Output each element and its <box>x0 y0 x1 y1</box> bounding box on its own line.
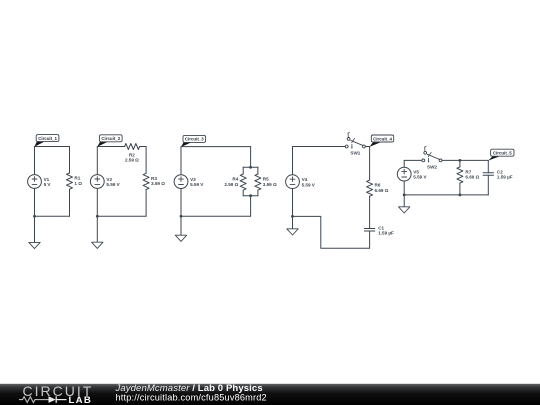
wire top circuit 1 <box>35 146 70 148</box>
svg-text:Circuit_4: Circuit_4 <box>373 136 392 141</box>
wire split bar circuit 3 <box>243 166 258 168</box>
svg-text:Circuit_3: Circuit_3 <box>185 137 204 142</box>
svg-text:1 Ω: 1 Ω <box>74 181 82 186</box>
wire R6 to C1 <box>369 196 371 228</box>
svg-text:LAB: LAB <box>69 395 93 405</box>
svg-text:Circuit_2: Circuit_2 <box>101 136 120 141</box>
svg-text:2.59 Ω: 2.59 Ω <box>224 182 238 187</box>
svg-text:http://circuitlab.com/cfu85uv8: http://circuitlab.com/cfu85uv86mrd2 <box>116 393 267 403</box>
wire R5 bottom stub <box>257 190 259 196</box>
wire R7 bottom stub <box>459 183 461 195</box>
svg-text:6.69 Ω: 6.69 Ω <box>375 188 389 193</box>
resistor R7 <box>457 167 480 183</box>
wire right lower circuit 3 <box>250 196 252 217</box>
junction dot circuit 5 left <box>403 194 406 197</box>
wire top-right circuit 5 <box>460 159 488 161</box>
wire top-left circuit 2 <box>97 146 124 148</box>
junction dot R7 top <box>459 159 462 162</box>
wire left circuit 5 <box>403 160 405 167</box>
ground circuit 1 <box>29 216 40 248</box>
footer background bar <box>0 384 540 405</box>
wire R4 top stub <box>242 167 244 174</box>
wire top-right circuit 2 <box>140 146 147 148</box>
wire left circuit 1 <box>34 147 36 175</box>
wire C1 bottom <box>369 231 371 248</box>
node label flag Circuit_1 <box>34 135 59 147</box>
svg-text:6.69 Ω: 6.69 Ω <box>465 175 479 180</box>
resistor R5 <box>255 174 277 190</box>
svg-text:3.59 Ω: 3.59 Ω <box>263 182 277 187</box>
wire top circuit 4 <box>293 146 346 148</box>
wire bottom run circuit 4 <box>293 216 370 248</box>
junction dot circuit 4 <box>291 215 294 218</box>
wire left circuit 4 <box>292 147 294 175</box>
junction dot circuit 3 <box>180 215 183 218</box>
voltage source V4 <box>286 175 316 189</box>
wire right drop circuit 3 <box>250 147 252 168</box>
wire bottom circuit 3 <box>181 215 251 217</box>
wire bottom circuit 5 <box>404 194 488 196</box>
resistor R6 <box>367 180 389 196</box>
wire switch to corner circuit 4 <box>365 146 369 148</box>
svg-text:Circuit_5: Circuit_5 <box>493 151 512 156</box>
wire bottom circuit 1 <box>35 215 70 217</box>
wire left circuit 3 <box>180 147 182 175</box>
junction dot split circuit 3 <box>249 166 252 169</box>
junction dot R7 bottom <box>459 194 462 197</box>
node label flag Circuit_5 <box>488 149 514 160</box>
svg-text:5.59 V: 5.59 V <box>106 182 120 187</box>
svg-text:5.59 V: 5.59 V <box>413 175 427 180</box>
CircuitLab logo resistor-diode glyph <box>19 396 67 403</box>
capacitor C1 <box>364 225 394 235</box>
resistor R3 <box>143 173 165 189</box>
capacitor C2 <box>483 170 513 180</box>
wire R1 bottom stub <box>69 189 71 216</box>
junction dot circuit 2 <box>96 215 99 218</box>
voltage source V3 <box>174 175 204 189</box>
wire top circuit 3 <box>181 146 251 148</box>
svg-text:5 V: 5 V <box>44 182 52 187</box>
svg-text:1.59 µF: 1.59 µF <box>497 175 513 180</box>
svg-text:1.59 µF: 1.59 µF <box>378 230 394 235</box>
wire V5 bottom <box>403 181 405 195</box>
switch SW2 <box>422 146 442 169</box>
node label flag Circuit_3 <box>181 135 206 147</box>
svg-text:SW2: SW2 <box>427 165 437 170</box>
ground circuit 2 <box>92 216 103 248</box>
wire top-left circuit 5 <box>404 159 422 161</box>
wire C2 bottom stub <box>487 175 489 195</box>
wire R4 bottom stub <box>242 190 244 196</box>
wire R7 top stub <box>459 160 461 167</box>
wire C2 top stub <box>487 160 489 172</box>
node label flag Circuit_2 <box>97 135 122 147</box>
wire R3 top stub <box>145 147 147 174</box>
svg-text:2.59 Ω: 2.59 Ω <box>125 157 139 162</box>
switch SW1 <box>345 132 365 155</box>
wire left circuit 2 <box>96 147 98 175</box>
node label flag Circuit_4 <box>370 135 394 147</box>
ground circuit 5 <box>399 195 410 213</box>
wire R1 top stub <box>69 147 71 174</box>
svg-text:5.59 V: 5.59 V <box>190 182 204 187</box>
voltage source V1 <box>28 175 52 189</box>
voltage source V5 <box>397 167 427 181</box>
voltage source V2 <box>90 175 120 189</box>
wire V3 bottom <box>180 189 182 217</box>
wire V1 bottom <box>34 188 36 216</box>
svg-text:Circuit_1: Circuit_1 <box>38 136 57 141</box>
wire switch to R7 circuit 5 <box>442 159 460 161</box>
ground circuit 3 <box>175 216 186 241</box>
wire bottom circuit 2 <box>97 215 146 217</box>
junction dot merge circuit 3 <box>249 194 252 197</box>
resistor R2 <box>125 144 140 163</box>
wire V4 bottom <box>292 189 294 217</box>
resistor R4 <box>224 174 246 190</box>
svg-text:SW1: SW1 <box>350 151 360 156</box>
ground circuit 4 <box>287 216 298 235</box>
wire V2 bottom <box>96 188 98 216</box>
wire R3 bottom stub <box>145 190 147 217</box>
svg-text:3.59 Ω: 3.59 Ω <box>151 181 165 186</box>
resistor R1 <box>67 173 83 189</box>
wire right drop circuit 4 <box>369 147 371 181</box>
svg-text:5.59 V: 5.59 V <box>302 182 316 187</box>
wire merge bar circuit 3 <box>243 195 258 197</box>
wire R5 top stub <box>257 167 259 174</box>
junction dot circuit 1 <box>33 215 36 218</box>
